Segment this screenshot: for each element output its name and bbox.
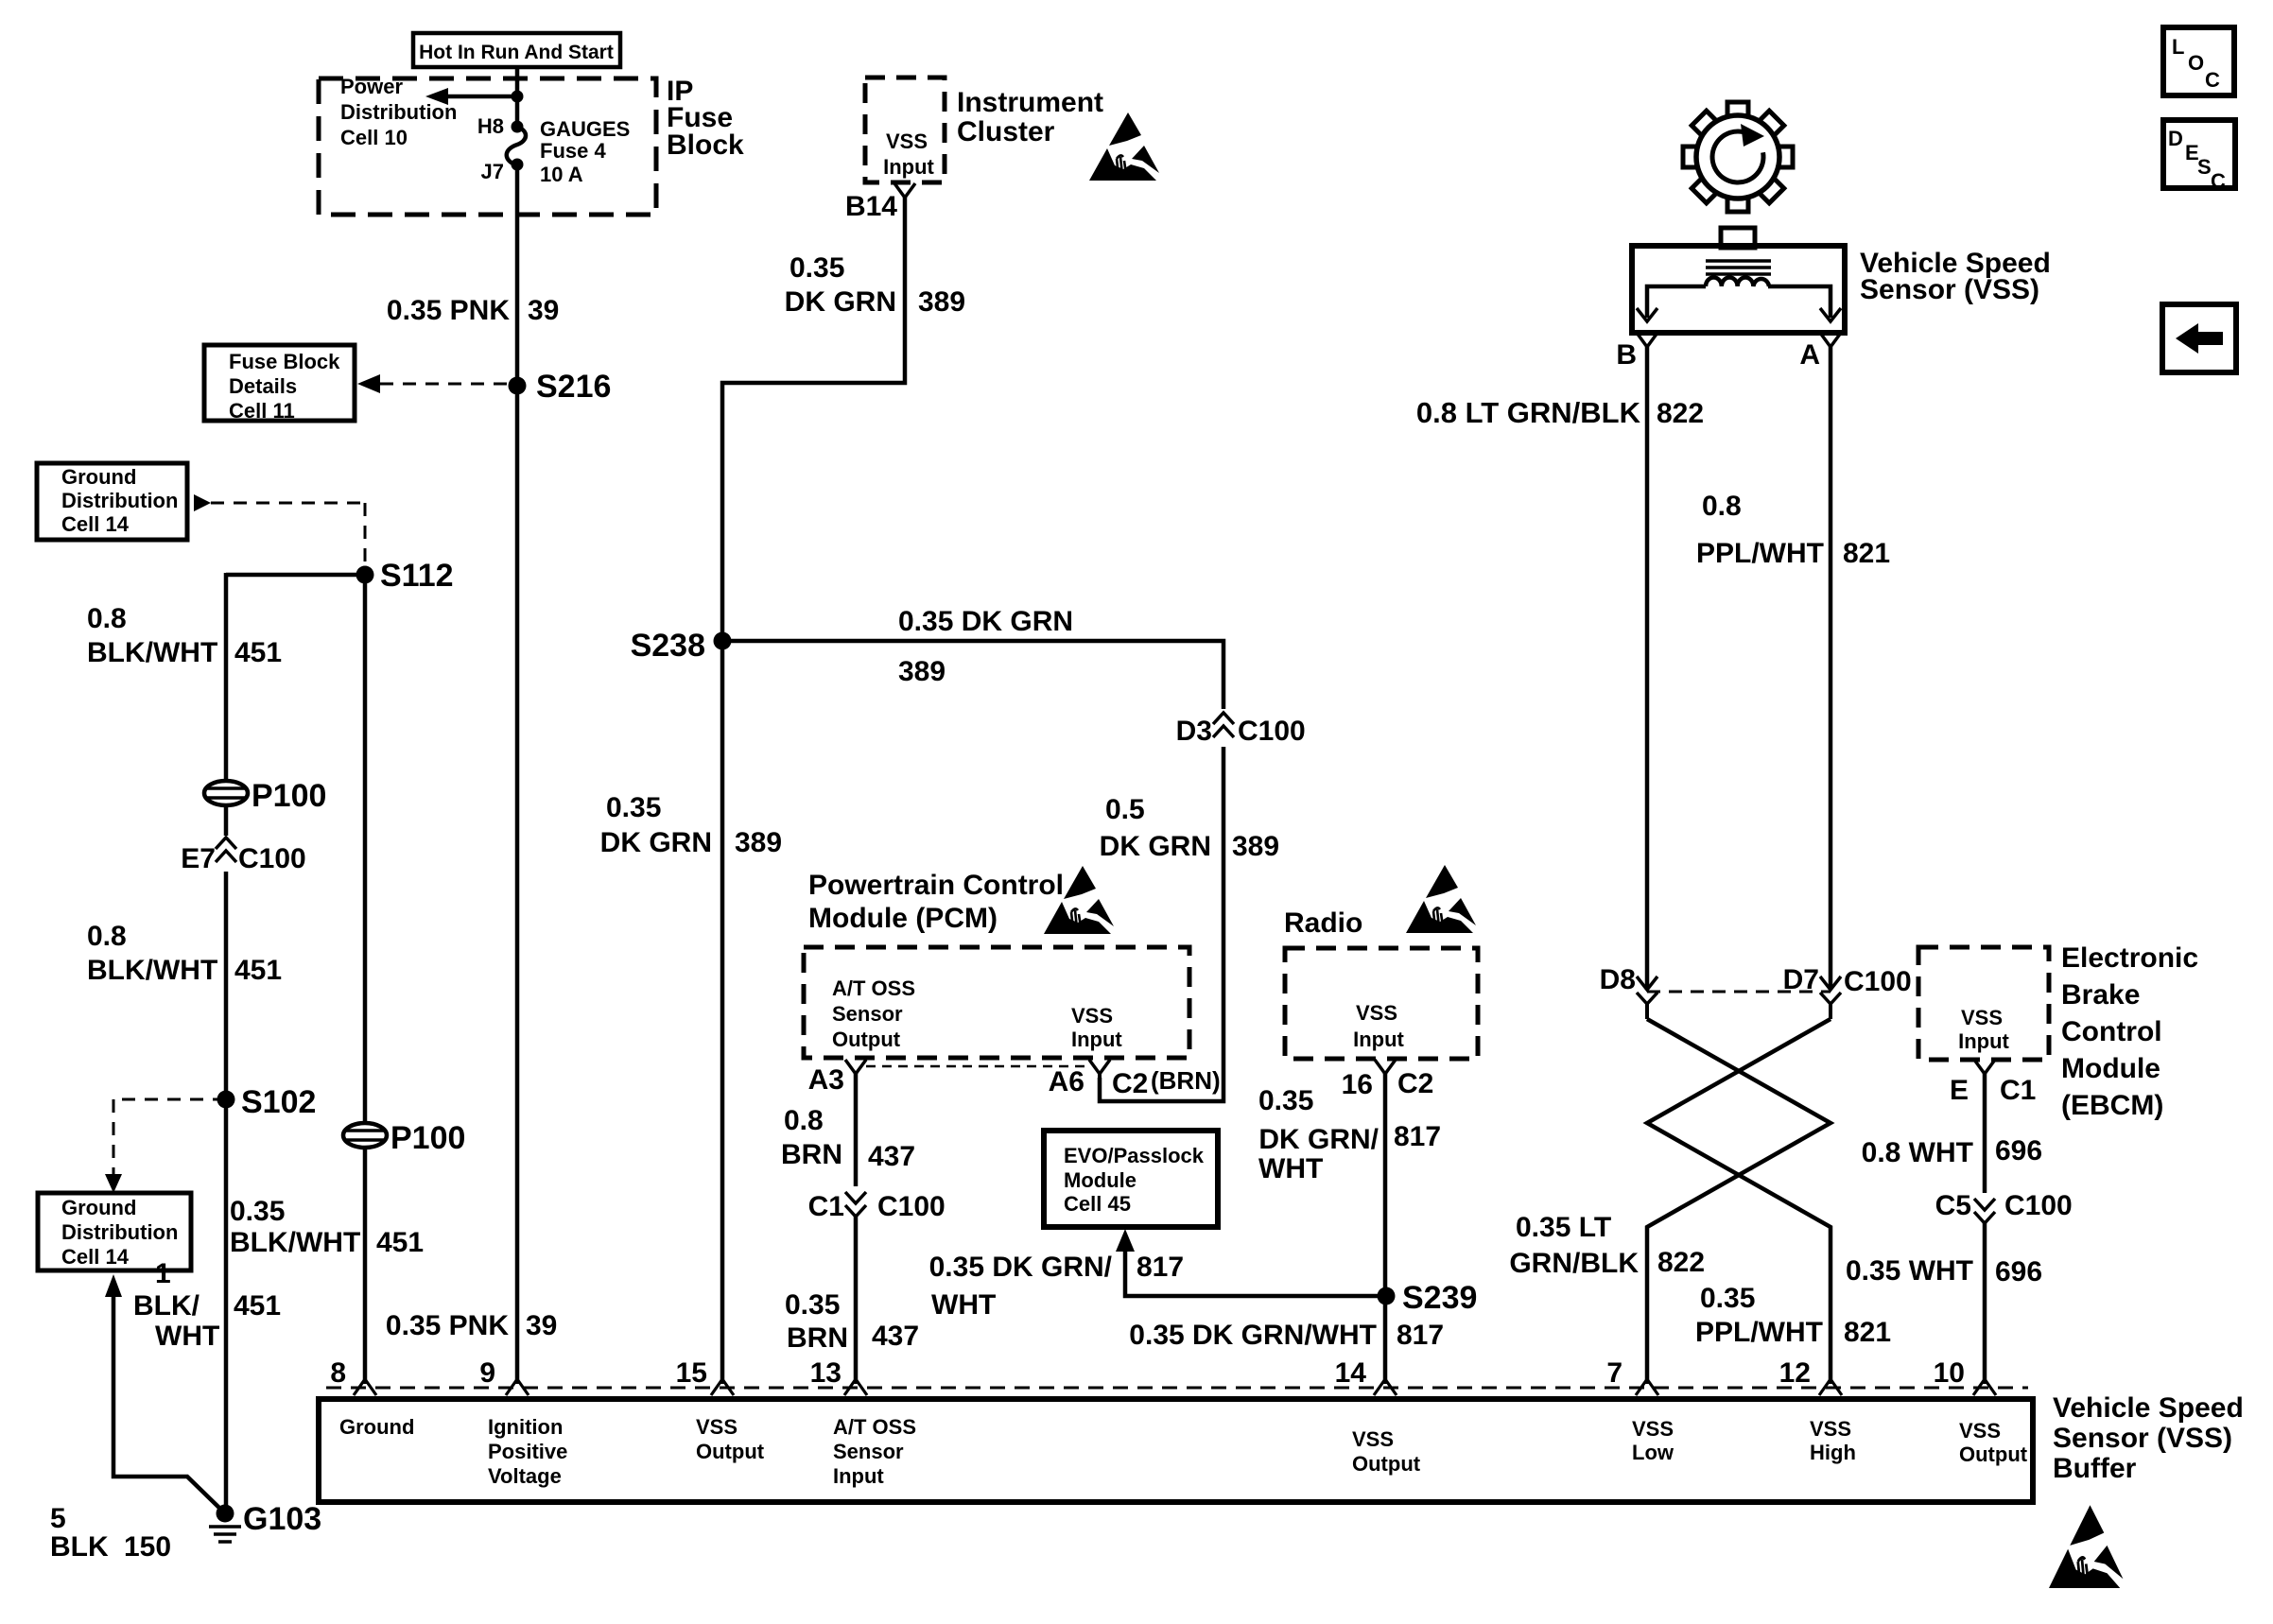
reluctor gear symbol <box>1683 102 1793 212</box>
svg-text:A: A <box>1799 339 1820 371</box>
pin A6 C2 of PCM <box>1089 1060 1110 1074</box>
svg-text:C5: C5 <box>1935 1190 1971 1221</box>
svg-text:389: 389 <box>918 286 965 318</box>
svg-text:451: 451 <box>234 1290 281 1322</box>
svg-text:822: 822 <box>1657 1247 1705 1278</box>
svg-text:BRN: BRN <box>787 1322 848 1354</box>
dashed reference arrow to S112 <box>194 494 211 511</box>
svg-text:Fuse 4: Fuse 4 <box>540 139 606 163</box>
svg-text:DK GRN/: DK GRN/ <box>1258 1124 1379 1155</box>
svg-text:(EBCM): (EBCM) <box>2061 1090 2163 1121</box>
buffer pin 14 <box>1374 1379 1397 1395</box>
svg-text:B: B <box>1616 339 1637 371</box>
svg-text:Control: Control <box>2061 1016 2162 1047</box>
wire fuse feed from Hot In Run And Start <box>515 67 520 127</box>
svg-text:Radio: Radio <box>1284 907 1362 939</box>
connector C5 C100 <box>1974 1212 1995 1223</box>
svg-text:16: 16 <box>1342 1069 1373 1100</box>
svg-text:Output: Output <box>1352 1452 1421 1476</box>
svg-text:0.35: 0.35 <box>785 1289 840 1321</box>
Vehicle Speed Sensor Buffer box <box>319 1399 2033 1502</box>
buffer pin 10 <box>1973 1379 1996 1395</box>
Electronic Brake Control Module dashed box <box>1918 947 2049 1060</box>
pin A3 of PCM <box>845 1060 866 1074</box>
svg-text:E7: E7 <box>181 843 216 874</box>
svg-text:BLK/: BLK/ <box>133 1290 200 1322</box>
ESD symbol Radio <box>1406 865 1476 933</box>
svg-text:G103: G103 <box>243 1501 321 1537</box>
svg-text:696: 696 <box>1995 1135 2042 1166</box>
svg-text:S102: S102 <box>241 1084 316 1120</box>
svg-text:Cell 14: Cell 14 <box>61 512 130 536</box>
svg-text:C1: C1 <box>2000 1075 2036 1106</box>
wire 0.8 BLK/WHT 451 to S102 <box>224 872 229 1099</box>
wire 5 BLK 150 from Ground Distribution to G103 <box>105 1274 122 1297</box>
svg-text:BLK/WHT: BLK/WHT <box>230 1227 360 1258</box>
svg-text:14: 14 <box>1335 1357 1367 1389</box>
svg-text:VSS: VSS <box>1352 1427 1394 1451</box>
svg-text:S112: S112 <box>380 558 454 594</box>
svg-text:0.8: 0.8 <box>784 1105 824 1136</box>
svg-text:C100: C100 <box>2004 1190 2073 1221</box>
svg-text:BLK: BLK <box>50 1531 109 1563</box>
dashed reference arrow to S216 <box>357 374 380 393</box>
svg-text:8: 8 <box>330 1357 346 1389</box>
wire 0.8 BLK/WHT 451 left branch down <box>224 573 229 836</box>
svg-text:10: 10 <box>1934 1357 1965 1389</box>
wire 0.8 PPL/WHT 821 from pin A to D7 <box>1829 347 1833 990</box>
svg-text:0.35 DK GRN/WHT: 0.35 DK GRN/WHT <box>1129 1320 1377 1351</box>
svg-text:O: O <box>2188 51 2204 75</box>
svg-text:389: 389 <box>1232 831 1279 862</box>
svg-text:437: 437 <box>868 1141 915 1172</box>
svg-text:0.35 LT: 0.35 LT <box>1516 1212 1611 1243</box>
svg-text:0.35 PNK: 0.35 PNK <box>386 1310 509 1341</box>
svg-text:PPL/WHT: PPL/WHT <box>1696 538 1824 569</box>
svg-text:451: 451 <box>376 1227 424 1258</box>
svg-text:39: 39 <box>528 295 559 326</box>
svg-text:Input: Input <box>1071 1028 1122 1051</box>
svg-text:Low: Low <box>1632 1441 1674 1464</box>
svg-text:P100: P100 <box>390 1120 465 1156</box>
svg-text:Power: Power <box>340 75 403 98</box>
grommet P100 left <box>204 781 248 805</box>
svg-text:10 A: 10 A <box>540 163 583 186</box>
svg-text:VSS: VSS <box>1356 1001 1397 1025</box>
svg-text:0.35 PNK: 0.35 PNK <box>387 295 510 326</box>
wire 0.35 PPL/WHT 821 crossover to buffer pin 12 <box>1647 1019 1831 1384</box>
svg-text:Block: Block <box>667 130 744 161</box>
pin H8 terminal dot <box>512 121 524 133</box>
Instrument Cluster dashed box <box>865 78 945 182</box>
sensor core lines <box>1706 259 1771 263</box>
svg-text:0.8 WHT: 0.8 WHT <box>1862 1137 1973 1168</box>
svg-text:696: 696 <box>1995 1256 2042 1287</box>
ESD symbol Instrument Cluster <box>1089 112 1159 181</box>
PCM connector face dashed line <box>866 1065 1089 1068</box>
buffer pin 9 <box>506 1379 529 1395</box>
svg-text:Vehicle Speed: Vehicle Speed <box>2053 1392 2244 1424</box>
svg-text:817: 817 <box>1136 1252 1184 1283</box>
svg-text:BLK/WHT: BLK/WHT <box>87 637 217 668</box>
wire from S112 to left branch <box>226 573 365 578</box>
svg-text:C100: C100 <box>1844 966 1912 997</box>
wire 0.8 BRN 437 from A3 <box>854 1073 859 1186</box>
svg-text:Sensor: Sensor <box>832 1002 903 1026</box>
svg-text:C: C <box>2211 169 2226 193</box>
svg-text:821: 821 <box>1843 538 1890 569</box>
svg-text:822: 822 <box>1657 398 1704 429</box>
svg-text:VSS: VSS <box>1959 1419 2001 1443</box>
connector C1 C100 <box>845 1205 866 1217</box>
svg-text:C100: C100 <box>877 1191 946 1222</box>
svg-text:WHT: WHT <box>931 1289 996 1321</box>
svg-text:Sensor (VSS): Sensor (VSS) <box>1860 274 2039 305</box>
svg-text:Module: Module <box>1064 1168 1136 1192</box>
svg-text:437: 437 <box>872 1321 919 1352</box>
svg-text:A/T OSS: A/T OSS <box>832 976 915 1000</box>
svg-text:0.8: 0.8 <box>1702 491 1742 522</box>
arrow to Power Distribution <box>442 95 517 99</box>
svg-text:C2: C2 <box>1112 1068 1148 1099</box>
svg-text:S238: S238 <box>631 628 705 664</box>
buffer pin 15 <box>711 1379 734 1395</box>
pin J7 terminal dot <box>512 159 524 171</box>
svg-text:0.8 LT GRN/BLK: 0.8 LT GRN/BLK <box>1416 396 1641 429</box>
svg-text:D3: D3 <box>1176 716 1212 747</box>
svg-text:Output: Output <box>832 1028 901 1051</box>
wire 0.35 DK GRN 389 from B14 <box>722 196 905 639</box>
svg-text:E: E <box>1950 1075 1969 1106</box>
svg-text:0.5: 0.5 <box>1105 794 1145 825</box>
pin A of VSS sensor <box>1820 333 1841 347</box>
label box "Hot In Run And Start" <box>413 33 620 67</box>
svg-text:0.35: 0.35 <box>606 792 661 823</box>
svg-text:7: 7 <box>1606 1357 1622 1389</box>
svg-text:0.8: 0.8 <box>87 921 127 952</box>
svg-text:0.35 WHT: 0.35 WHT <box>1846 1255 1973 1287</box>
svg-text:0.35: 0.35 <box>230 1196 285 1227</box>
svg-text:Cell 10: Cell 10 <box>340 126 408 149</box>
wire 0.35 DK GRN/WHT 817 from pin 16 to S239 <box>1383 1073 1388 1296</box>
svg-text:821: 821 <box>1844 1317 1891 1348</box>
svg-text:VSS: VSS <box>1071 1004 1113 1028</box>
svg-text:0.35: 0.35 <box>789 252 844 284</box>
buffer connector dashed line <box>326 1387 2028 1390</box>
svg-text:Details: Details <box>229 374 297 398</box>
splice S238 <box>714 632 732 650</box>
svg-text:13: 13 <box>810 1357 842 1389</box>
svg-text:817: 817 <box>1394 1121 1441 1152</box>
svg-text:Brake: Brake <box>2061 979 2140 1011</box>
svg-text:0.35: 0.35 <box>1700 1283 1755 1314</box>
module box "EVO/Passlock Module Cell 45" <box>1044 1131 1218 1227</box>
svg-text:BRN: BRN <box>781 1139 842 1170</box>
svg-text:Cluster: Cluster <box>957 116 1055 147</box>
pin 16 C2 of Radio <box>1375 1060 1396 1074</box>
ESD symbol PCM <box>1044 866 1114 934</box>
svg-text:J7: J7 <box>481 160 504 183</box>
svg-text:Fuse Block: Fuse Block <box>229 350 340 373</box>
svg-text:VSS: VSS <box>886 130 928 153</box>
svg-text:D: D <box>2168 127 2183 150</box>
splice S102 <box>217 1091 235 1109</box>
wire 0.5 DK GRN 389 from C100 to PCM <box>1100 747 1223 1101</box>
svg-text:VSS: VSS <box>1810 1417 1851 1441</box>
svg-text:Instrument: Instrument <box>957 87 1103 118</box>
svg-text:Module (PCM): Module (PCM) <box>808 903 998 934</box>
ground G103 <box>217 1505 234 1523</box>
svg-text:1: 1 <box>155 1258 171 1289</box>
svg-text:A6: A6 <box>1049 1066 1084 1097</box>
wire 0.35 LT GRN/BLK 822 crossover to buffer pin 7 <box>1647 1019 1831 1384</box>
svg-text:DK GRN: DK GRN <box>600 827 712 858</box>
svg-text:Input: Input <box>833 1464 884 1488</box>
pin B of VSS sensor <box>1637 333 1657 347</box>
svg-text:Cell 45: Cell 45 <box>1064 1192 1131 1216</box>
svg-text:C2: C2 <box>1397 1068 1433 1099</box>
svg-text:C100: C100 <box>238 843 306 874</box>
svg-text:A/T OSS: A/T OSS <box>833 1415 916 1439</box>
svg-text:(BRN): (BRN) <box>1151 1066 1221 1095</box>
svg-text:S216: S216 <box>536 369 611 405</box>
svg-text:817: 817 <box>1397 1320 1444 1351</box>
wire 0.35 DK GRN 389 from S238 to buffer pin 15 <box>720 641 725 1384</box>
svg-text:0.8: 0.8 <box>87 603 127 634</box>
connector E7 C100 <box>216 838 236 849</box>
svg-text:VSS: VSS <box>696 1415 737 1439</box>
svg-text:C100: C100 <box>1238 716 1306 747</box>
connector D3 C100 <box>1213 713 1234 724</box>
Vehicle Speed Sensor box <box>1721 228 1755 248</box>
svg-text:Ground: Ground <box>339 1415 414 1439</box>
svg-text:VSS: VSS <box>1961 1006 2003 1029</box>
svg-text:Distribution: Distribution <box>61 1220 178 1244</box>
svg-text:GRN/BLK: GRN/BLK <box>1509 1248 1639 1279</box>
svg-text:Sensor: Sensor <box>833 1440 904 1463</box>
svg-text:Input: Input <box>1958 1029 2009 1053</box>
svg-text:150: 150 <box>124 1531 171 1563</box>
svg-text:Cell 14: Cell 14 <box>61 1245 130 1269</box>
svg-text:Module: Module <box>2061 1053 2160 1084</box>
connector D8 C100 <box>1637 976 1657 990</box>
IP Fuse Block dashed box <box>319 78 656 215</box>
back arrow icon box <box>2162 304 2236 372</box>
wire 0.35 WHT 696 from C100 to buffer pin 10 <box>1983 1223 1987 1384</box>
wire 0.8 WHT 696 from pin E <box>1983 1073 1987 1193</box>
C100 connector dashed line <box>1647 991 1831 993</box>
svg-text:C1: C1 <box>808 1191 844 1222</box>
grommet P100 right <box>343 1123 387 1148</box>
svg-text:L: L <box>2172 35 2184 59</box>
wire 0.8 LT GRN/BLK 822 from pin B to D8 <box>1645 347 1650 990</box>
svg-text:Voltage: Voltage <box>488 1464 562 1488</box>
svg-text:Distribution: Distribution <box>61 489 178 512</box>
svg-text:S239: S239 <box>1402 1280 1477 1316</box>
connector D7 C100 <box>1820 976 1841 990</box>
svg-text:389: 389 <box>898 656 946 687</box>
svg-text:389: 389 <box>735 827 782 858</box>
Radio dashed box <box>1285 948 1478 1059</box>
svg-text:WHT: WHT <box>1258 1153 1323 1184</box>
buffer pin 13 <box>844 1379 867 1395</box>
buffer pin 7 <box>1636 1379 1658 1395</box>
svg-text:P100: P100 <box>252 778 326 814</box>
wire 0.35 DK GRN/WHT 817 from S239 to buffer pin 14 <box>1383 1296 1388 1384</box>
svg-text:Electronic: Electronic <box>2061 942 2198 974</box>
svg-text:VSS: VSS <box>1632 1417 1674 1441</box>
fuse GAUGES Fuse 4 10 A symbol <box>507 127 526 165</box>
svg-text:Output: Output <box>1959 1443 2028 1466</box>
wire 0.35 DK GRN/WHT 817 arrow into EVO module <box>1116 1229 1135 1252</box>
svg-text:451: 451 <box>234 637 282 668</box>
svg-text:GAUGES: GAUGES <box>540 117 630 141</box>
svg-text:BLK/WHT: BLK/WHT <box>87 955 217 986</box>
DESC icon box <box>2163 120 2235 188</box>
svg-text:0.35: 0.35 <box>1258 1085 1313 1116</box>
svg-text:Ground: Ground <box>61 1196 136 1219</box>
svg-text:Sensor (VSS): Sensor (VSS) <box>2053 1423 2232 1454</box>
svg-text:12: 12 <box>1779 1357 1811 1389</box>
svg-text:DK GRN: DK GRN <box>785 286 896 318</box>
svg-text:EVO/Passlock: EVO/Passlock <box>1064 1144 1205 1167</box>
pin E C1 of EBCM <box>1974 1060 1995 1074</box>
svg-text:39: 39 <box>526 1310 557 1341</box>
pin B14 of Instrument Cluster <box>894 183 915 198</box>
svg-text:High: High <box>1810 1441 1856 1464</box>
svg-text:5: 5 <box>50 1503 66 1534</box>
svg-text:PPL/WHT: PPL/WHT <box>1695 1317 1823 1348</box>
svg-text:Distribution: Distribution <box>340 100 457 124</box>
svg-text:Powertrain Control: Powertrain Control <box>808 870 1064 901</box>
svg-text:451: 451 <box>234 955 282 986</box>
dashed reference from S102 to Ground Distribution <box>113 1098 226 1101</box>
svg-text:Cell 11: Cell 11 <box>229 399 295 423</box>
ESD symbol buffer <box>2049 1505 2123 1588</box>
buffer pin 8 <box>354 1379 376 1395</box>
splice S112 <box>356 566 374 584</box>
svg-text:Ignition: Ignition <box>488 1415 563 1439</box>
svg-text:0.35 DK GRN/: 0.35 DK GRN/ <box>929 1252 1113 1283</box>
svg-text:Input: Input <box>883 155 934 179</box>
svg-text:Input: Input <box>1353 1028 1404 1051</box>
wire 0.35 BLK/WHT 451 from S112 to buffer pin 8 <box>363 575 368 1384</box>
svg-text:C: C <box>2205 68 2220 92</box>
svg-text:9: 9 <box>479 1357 495 1389</box>
wire 0.35 PNK 39 from J7 to S216 <box>515 164 520 386</box>
wire 0.35 PNK 39 from S216 to buffer pin 9 <box>515 386 520 1384</box>
svg-text:S: S <box>2197 155 2212 179</box>
svg-text:WHT: WHT <box>155 1321 219 1352</box>
svg-text:H8: H8 <box>477 114 504 138</box>
Powertrain Control Module dashed box <box>804 947 1189 1058</box>
svg-text:Ground: Ground <box>61 465 136 489</box>
svg-text:B14: B14 <box>845 191 897 222</box>
reference box "Fuse Block Details Cell 11" <box>204 345 355 421</box>
svg-text:D8: D8 <box>1600 964 1636 995</box>
sensor internal leads <box>1647 286 1706 318</box>
splice S216 <box>509 377 527 395</box>
wire 0.35 DK GRN 389 from S238 to D3 <box>722 641 1223 709</box>
svg-text:0.35 DK GRN: 0.35 DK GRN <box>898 606 1073 637</box>
svg-text:DK GRN: DK GRN <box>1100 831 1211 862</box>
sensor inductor coil <box>1706 277 1769 286</box>
reference box "Ground Distribution Cell 14" lower <box>38 1193 191 1270</box>
wire 0.35 BRN 437 from C100 to buffer pin 13 <box>854 1217 859 1384</box>
buffer pin 12 <box>1819 1379 1842 1395</box>
svg-text:Positive: Positive <box>488 1440 567 1463</box>
svg-text:15: 15 <box>676 1357 707 1389</box>
reference box "Ground Distribution Cell 14" upper <box>37 463 187 540</box>
junction dot on feed <box>512 91 524 103</box>
svg-text:Hot In Run And Start: Hot In Run And Start <box>419 42 614 63</box>
wire 1 BLK/WHT 451 from S102 to G103 <box>224 1099 229 1513</box>
svg-text:Buffer: Buffer <box>2053 1453 2137 1484</box>
svg-text:Output: Output <box>696 1440 765 1463</box>
splice S239 <box>1378 1287 1396 1305</box>
svg-text:A3: A3 <box>808 1064 844 1096</box>
LOC icon box <box>2163 27 2234 95</box>
